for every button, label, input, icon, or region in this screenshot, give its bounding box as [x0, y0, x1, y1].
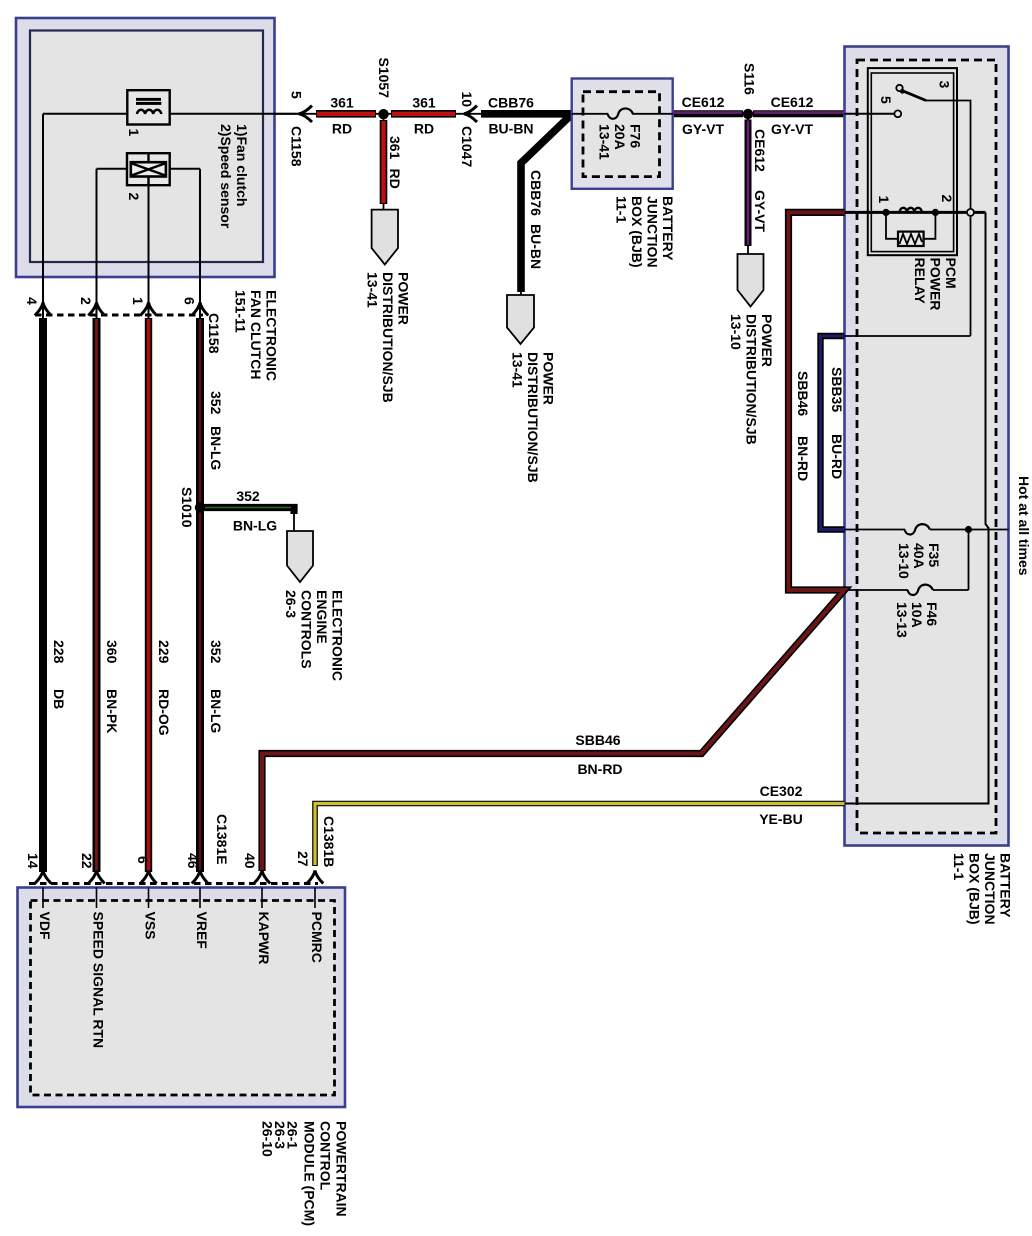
SECTION: left wires [24, 290, 346, 872]
splice S1010 [195, 502, 205, 512]
svg-text:POWER: POWER [759, 314, 775, 367]
label pin 2 [78, 297, 94, 305]
svg-text:2)Speed sensor: 2)Speed sensor [218, 124, 234, 229]
wire: SBB35 internal run (pin3 circuit to box edge) [845, 335, 971, 337]
svg-text:RD-OG: RD-OG [156, 689, 172, 736]
label pin 22 [79, 853, 95, 869]
svg-text:20A: 20A [612, 124, 628, 150]
svg-text:DISTRIBUTION/SJB: DISTRIBUTION/SJB [525, 352, 541, 483]
wire 228 DB (pin4 to PCM pin14) [39, 318, 47, 872]
svg-text:360: 360 [104, 640, 120, 664]
wire: pin4 vertical drop [42, 114, 44, 318]
label RD (vertical) [387, 169, 403, 189]
battery junction box F76 (outer) [572, 79, 673, 189]
wire SBB35 BU-RD (outside loop) [821, 336, 845, 530]
svg-text:4: 4 [24, 297, 40, 305]
svg-text:BU-RD: BU-RD [829, 434, 845, 479]
svg-text:SBB35: SBB35 [829, 367, 845, 412]
powertrain control module box [18, 888, 346, 1108]
label 229 [156, 640, 172, 664]
off-page connector: POWER DISTRIBUTION/SJB 13-41 (from CBB76) [507, 295, 534, 344]
wire CE612 GY-VT segment 1 [673, 110, 743, 117]
svg-text:SPEED SIGNAL RTN: SPEED SIGNAL RTN [91, 912, 107, 1049]
svg-text:POWER: POWER [541, 352, 557, 405]
svg-text:352: 352 [208, 640, 224, 664]
svg-text:BN-PK: BN-PK [104, 689, 120, 733]
svg-text:CE612: CE612 [682, 94, 725, 110]
relay suppression resistor [898, 232, 924, 246]
wire: F46 line [845, 589, 909, 591]
powertrain control module inner dashed [31, 901, 335, 1096]
label BATTERY JUNCTION BOX (BJB) 11-1 (bottom) [951, 853, 1014, 925]
svg-text:1: 1 [126, 129, 142, 137]
svg-text:27: 27 [295, 851, 311, 867]
label pin 6 [182, 297, 198, 305]
svg-text:13-41: 13-41 [597, 124, 613, 160]
svg-text:5: 5 [878, 96, 894, 104]
label 1 (fan clutch) [126, 129, 142, 137]
battery junction box (inner dashed) [857, 60, 996, 833]
relay pin 3 contact (circle) [896, 85, 902, 91]
SECTION: BJB fuse box F76 [572, 79, 676, 268]
svg-text:DISTRIBUTION/SJB: DISTRIBUTION/SJB [744, 314, 760, 445]
connector arrow C1047 pin 10 (points left) [464, 106, 477, 122]
svg-text:ENGINE: ENGINE [314, 590, 330, 644]
svg-text:BN-LG: BN-LG [233, 518, 277, 534]
wire CBB76 diagonal branch [521, 115, 571, 292]
svg-text:361: 361 [330, 95, 354, 111]
wire 361 RD segment 1 [316, 110, 376, 118]
label C1381E [214, 814, 230, 865]
splice S1057 [378, 109, 388, 119]
svg-text:SBB46: SBB46 [795, 371, 811, 416]
wire: main feed line (C1158 pin5 to BJB) [276, 113, 572, 115]
label: 1)Fan clutch 2)Speed sensor [218, 124, 250, 229]
fan clutch assembly box (outer) [16, 18, 275, 277]
connector C1381 dashed line [29, 882, 318, 885]
wire: speed sensor horizontal line [97, 168, 201, 170]
label pin 27 [295, 851, 311, 867]
svg-text:POWER: POWER [396, 272, 412, 325]
wire: fan clutch pin4 line (horizontal through component 1) [43, 113, 304, 115]
label 2 (speed sensor) [126, 193, 142, 201]
fuse F46 10A [908, 585, 933, 595]
label F35 40A 13-10 [896, 543, 942, 579]
off-page connector: ELECTRONIC ENGINE CONTROLS 26-3 [287, 531, 313, 582]
wire 361 RD vertical drop from S1057 [383, 114, 385, 209]
svg-text:GY-VT: GY-VT [771, 121, 813, 137]
svg-text:JUNCTION: JUNCTION [645, 196, 661, 268]
svg-text:PCM: PCM [943, 258, 959, 289]
label 352 (upper) [208, 391, 224, 415]
label KAPWR [256, 912, 272, 965]
svg-text:CE612: CE612 [752, 129, 768, 172]
svg-text:3: 3 [937, 81, 953, 89]
connector arrow pin 6 [192, 303, 208, 316]
svg-text:KAPWR: KAPWR [256, 912, 272, 965]
fuse F76 20A [608, 108, 633, 118]
label C1158 (bottom connector) [206, 313, 222, 354]
svg-text:1: 1 [130, 297, 146, 305]
label C1381B [321, 816, 337, 867]
svg-text:S1057: S1057 [376, 58, 392, 99]
svg-text:C1158: C1158 [289, 126, 305, 167]
svg-text:GY-VT: GY-VT [682, 121, 724, 137]
svg-text:5: 5 [289, 91, 305, 99]
svg-text:13-41: 13-41 [510, 352, 526, 388]
wire CE612 GY-VT vertical drop from S116 [747, 114, 749, 254]
wire: pin2 vertical drop [96, 169, 98, 318]
svg-text:S116: S116 [742, 63, 758, 95]
label VREF [194, 912, 210, 950]
label GY-VT (vertical) [752, 190, 768, 232]
svg-text:CE612: CE612 [771, 94, 814, 110]
off-page connector: POWER DISTRIBUTION/SJB 13-10 [738, 254, 764, 307]
svg-text:BN-RD: BN-RD [577, 761, 622, 777]
relay pin 2 junction dot [932, 209, 939, 216]
svg-text:BOX (BJB): BOX (BJB) [629, 196, 645, 268]
svg-text:BOX (BJB): BOX (BJB) [967, 853, 983, 925]
label C1047 [459, 126, 475, 167]
wire: pin 5 stub [845, 113, 895, 115]
label POWER DISTRIBUTION/SJB 13-41 (2) [510, 352, 557, 483]
svg-text:BATTERY: BATTERY [660, 196, 676, 261]
relay switch arm [902, 91, 926, 101]
label PCM POWER RELAY [912, 258, 959, 311]
svg-text:VREF: VREF [194, 912, 210, 950]
svg-text:C1381E: C1381E [214, 814, 230, 865]
svg-text:BN-LG: BN-LG [208, 689, 224, 733]
svg-text:SBB46: SBB46 [575, 732, 620, 748]
label pin 40 [242, 853, 258, 869]
component 1: fan clutch coil [127, 90, 169, 124]
svg-text:F46: F46 [924, 602, 940, 626]
svg-text:MODULE (PCM): MODULE (PCM) [302, 1121, 318, 1226]
wire: pin6 vertical drop [199, 169, 201, 318]
svg-text:1)Fan clutch: 1)Fan clutch [234, 124, 250, 206]
svg-text:F35: F35 [926, 543, 942, 567]
svg-text:40: 40 [242, 853, 258, 869]
label POWER DISTRIBUTION/SJB 13-10 [728, 314, 775, 445]
svg-text:ELECTRONIC: ELECTRONIC [264, 290, 280, 381]
label relay pin 1 [876, 196, 892, 204]
label BATTERY JUNCTION BOX (BJB) 11-1 [614, 196, 677, 268]
svg-text:13-41: 13-41 [365, 272, 381, 308]
label pin 5 [289, 91, 305, 99]
label S116 [742, 63, 758, 95]
connector arrow C1158 pin 5 (points left) [299, 106, 312, 122]
label ELECTRONIC FAN CLUTCH 151-11 [233, 290, 280, 381]
wire CE302 YE-BU [315, 804, 845, 867]
label 361 (vertical) [387, 136, 403, 160]
svg-text:352: 352 [236, 488, 260, 504]
svg-text:C1047: C1047 [459, 126, 475, 167]
svg-text:BN-RD: BN-RD [795, 436, 811, 481]
svg-text:46: 46 [185, 853, 201, 869]
svg-text:352: 352 [208, 391, 224, 415]
svg-text:RELAY: RELAY [912, 258, 928, 305]
label VSS [143, 912, 159, 940]
svg-text:6: 6 [182, 297, 198, 305]
off-page connector: POWER DISTRIBUTION/SJB 13-41 (from S1057) [372, 210, 398, 265]
svg-text:14: 14 [25, 853, 41, 869]
svg-text:CBB76: CBB76 [528, 170, 544, 216]
relay coil [900, 208, 922, 213]
connector arrow pin 14 [35, 871, 51, 884]
svg-text:Hot at all times: Hot at all times [1016, 476, 1032, 576]
svg-text:361: 361 [387, 136, 403, 160]
svg-text:361: 361 [412, 95, 436, 111]
label POWERTRAIN CONTROL MODULE (PCM) 26-1 26-3 26-10 [260, 1121, 350, 1226]
svg-text:F76: F76 [628, 124, 644, 148]
svg-text:40A: 40A [911, 543, 927, 569]
label SPEED SIGNAL RTN [91, 912, 107, 1049]
junction dot (F35/F46 outputs) [965, 526, 972, 533]
battery junction box (outer) [845, 47, 1009, 846]
svg-text:11-1: 11-1 [951, 853, 967, 880]
svg-text:26-10: 26-10 [260, 1121, 276, 1157]
label F46 10A 13-13 [894, 602, 940, 638]
PCM pin stubs [42, 888, 44, 909]
svg-text:10A: 10A [909, 602, 925, 628]
svg-text:CONTROLS: CONTROLS [299, 590, 315, 669]
label relay pin 3 [937, 81, 953, 89]
label RD-OG [156, 689, 172, 736]
fan clutch assembly box (inner) [30, 31, 263, 263]
label VDF [37, 912, 53, 940]
svg-text:2: 2 [939, 195, 955, 203]
label 228 [51, 640, 67, 664]
connector arrow pin 2 [88, 303, 104, 316]
svg-text:CONTROL: CONTROL [318, 1121, 334, 1191]
wire: hot at all times feed line with fuse F35 [845, 529, 906, 531]
svg-text:S1010: S1010 [179, 487, 195, 528]
label pin 1 [130, 297, 146, 305]
svg-text:DISTRIBUTION/SJB: DISTRIBUTION/SJB [380, 272, 396, 403]
label pin 6 (PCM) [135, 856, 151, 864]
svg-text:BU-BN: BU-BN [488, 121, 533, 137]
svg-text:2: 2 [126, 193, 142, 201]
svg-text:YE-BU: YE-BU [759, 811, 803, 827]
svg-text:FAN CLUTCH: FAN CLUTCH [248, 290, 264, 379]
svg-text:11-1: 11-1 [614, 196, 630, 223]
connector arrow pin 22 [88, 871, 104, 884]
svg-text:229: 229 [156, 640, 172, 664]
wire: pin 2 circuit down to CE302 (line B) [845, 212, 989, 803]
wire 361 RD segment 2 [391, 110, 456, 118]
component 2: speed sensor [127, 153, 170, 185]
SECTION: PCM box [18, 814, 350, 1226]
svg-text:CE302: CE302 [760, 783, 803, 799]
label relay pin 5 [878, 96, 894, 104]
connector arrow pin 46 [192, 871, 208, 884]
svg-text:POWERTRAIN: POWERTRAIN [334, 1121, 350, 1217]
relay pin 1 junction dot [882, 209, 889, 216]
wire: relay pin 3 to junction [926, 101, 971, 337]
crossover circle at pin2 line [967, 209, 974, 216]
label F76 20A 13-41 [597, 124, 644, 160]
wire 229 RD-OG (pin1 to PCM pin6) [145, 318, 152, 872]
wire 352 BN-LG (pin6 to PCM pin46) [196, 318, 204, 872]
svg-text:JUNCTION: JUNCTION [982, 853, 998, 925]
wire CE612 GY-VT segment 2 [753, 110, 845, 117]
svg-text:PCMRC: PCMRC [309, 912, 325, 963]
connector C1158 dashed line [35, 314, 203, 317]
wire 360 BN-PK (pin2 to PCM pin22) [93, 318, 101, 872]
svg-text:DB: DB [51, 689, 67, 709]
wire CBB76 BU-BN heavy segment [481, 110, 572, 118]
svg-text:2: 2 [78, 297, 94, 305]
svg-text:VSS: VSS [143, 912, 159, 940]
SECTION: fan clutch box [16, 18, 304, 318]
svg-text:10: 10 [459, 92, 475, 108]
svg-text:C1381B: C1381B [321, 816, 337, 867]
svg-text:RD: RD [414, 121, 434, 137]
label SBB35 [829, 367, 845, 412]
label BN-RD (vertical) [795, 436, 811, 481]
label pin 46 [185, 853, 201, 869]
label BN-LG (lower) [208, 689, 224, 733]
svg-text:6: 6 [135, 856, 151, 864]
label SBB46 (vertical) [795, 371, 811, 416]
wire 352 BN-LG branch from S1010 [200, 508, 294, 515]
svg-text:13-10: 13-10 [896, 543, 912, 579]
label C1158 [289, 126, 305, 167]
label relay pin 2 [939, 195, 955, 203]
svg-text:RD: RD [332, 121, 352, 137]
fuse F35 40A [905, 524, 930, 534]
connector arrow pin 4 [35, 303, 51, 316]
svg-text:228: 228 [51, 640, 67, 664]
svg-text:13-10: 13-10 [728, 314, 744, 350]
battery junction box F76 (inner dashed) [583, 92, 660, 177]
svg-text:GY-VT: GY-VT [752, 190, 768, 232]
svg-text:VDF: VDF [37, 912, 53, 940]
relay switch arm pivot dot [900, 89, 905, 94]
label 352 (lower) [208, 640, 224, 664]
connector arrow pin 1 [140, 303, 156, 316]
SECTION: top wires [276, 58, 845, 483]
PCM power relay box [868, 68, 957, 255]
connector arrow pin 27 [307, 871, 323, 884]
label Hot at all times [1016, 476, 1032, 576]
svg-text:151-11: 151-11 [233, 290, 249, 333]
label POWER DISTRIBUTION/SJB 13-41 [365, 272, 412, 403]
svg-text:1: 1 [876, 196, 892, 204]
splice S116 [743, 109, 753, 119]
svg-text:POWER: POWER [928, 258, 944, 311]
svg-text:13-13: 13-13 [894, 602, 910, 638]
wire: relay coil feed line (pin1-pin2 heavy) [845, 211, 986, 214]
svg-text:22: 22 [79, 853, 95, 869]
wire SBB46 BN-RD (pin1 feed, outside loop, diagonal to PCM) [262, 212, 845, 871]
label pin 14 [25, 853, 41, 869]
label pin 4 [24, 297, 40, 305]
label BN-PK [104, 689, 120, 733]
SECTION: big BJB box [262, 47, 1032, 925]
svg-text:C1158: C1158 [206, 313, 222, 354]
label pin 10 [459, 92, 475, 108]
svg-text:BN-LG: BN-LG [208, 426, 224, 470]
relay pin 5 contact (circle) [894, 110, 901, 117]
svg-text:BU-BN: BU-BN [528, 224, 544, 269]
connector arrow pin 6 [140, 871, 156, 884]
label S1010 [179, 487, 195, 528]
svg-text:BATTERY: BATTERY [998, 853, 1014, 918]
wire through F76 [572, 113, 608, 115]
svg-text:ELECTRONIC: ELECTRONIC [330, 590, 346, 681]
label CBB76 (vertical) [528, 170, 544, 216]
svg-text:RD: RD [387, 169, 403, 189]
label BU-RD [829, 434, 845, 479]
svg-text:26-3: 26-3 [283, 590, 299, 618]
label BN-LG (upper) [208, 426, 224, 470]
label ELECTRONIC ENGINE CONTROLS 26-3 [283, 590, 346, 681]
svg-text:CBB76: CBB76 [488, 95, 534, 111]
label BU-BN (vertical) [528, 224, 544, 269]
label PCMRC [309, 912, 325, 963]
relay suppression resistor leads [886, 212, 898, 238]
label CE612 (vertical) [752, 129, 768, 172]
label DB [51, 689, 67, 709]
label S1057 [376, 58, 392, 99]
wire: pin1 vertical drop from sensor center [148, 185, 150, 318]
label 360 [104, 640, 120, 664]
connector arrow pin 40 [254, 871, 270, 884]
